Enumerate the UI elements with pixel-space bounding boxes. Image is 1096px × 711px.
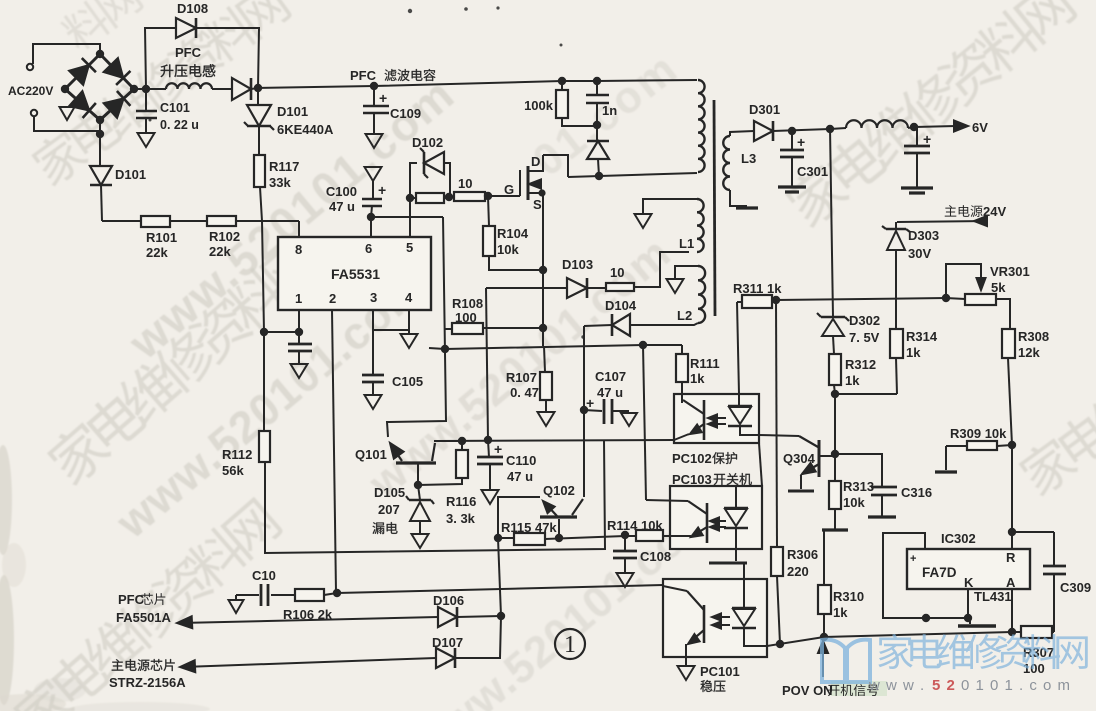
node AC input terminals — [27, 64, 33, 70]
svg-text:S: S — [533, 197, 542, 212]
svg-text:+: + — [378, 182, 386, 198]
scan shading blobs — [0, 445, 210, 711]
wire bottom rail — [767, 632, 1021, 646]
resistor R106 — [295, 589, 324, 601]
wire L3 gnd — [730, 190, 747, 206]
svg-text:10: 10 — [610, 265, 624, 280]
svg-text:R111: R111 — [690, 356, 720, 371]
wire lineB — [337, 585, 663, 593]
resistor R314 — [890, 329, 903, 358]
svg-text:56k: 56k — [222, 463, 244, 478]
svg-text:1k: 1k — [845, 373, 860, 388]
svg-text:PFC: PFC — [175, 45, 202, 60]
svg-text:1k: 1k — [906, 345, 921, 360]
wire C107 vert — [583, 326, 585, 497]
svg-text:Q102: Q102 — [543, 483, 575, 498]
svg-text:100: 100 — [455, 310, 477, 325]
svg-text:R117: R117 — [269, 159, 299, 174]
svg-text:C10: C10 — [252, 568, 276, 583]
svg-text:1k: 1k — [690, 371, 705, 386]
capacitor C107 — [580, 406, 588, 414]
svg-text:5k: 5k — [991, 280, 1006, 295]
svg-text:1n: 1n — [602, 103, 617, 118]
svg-text:R106 2k: R106 2k — [283, 607, 333, 622]
wire drain line — [568, 173, 697, 177]
capacitor C6V — [916, 127, 918, 146]
capacitor C301 — [791, 131, 793, 150]
bridge rectifier — [65, 54, 100, 89]
svg-text:R107: R107 — [506, 370, 537, 385]
svg-text:A: A — [1006, 575, 1016, 590]
filter coil 6V — [846, 120, 908, 128]
diode D108 — [145, 28, 176, 89]
diode D102 — [410, 163, 417, 198]
scan specks — [149, 6, 585, 338]
wire PC103 collector — [643, 345, 646, 500]
resistor R310 — [823, 530, 825, 585]
wire — [371, 216, 443, 218]
svg-text:207: 207 — [378, 502, 400, 517]
transistor Q102 — [540, 515, 577, 518]
svg-text:D302: D302 — [849, 313, 880, 328]
zener D101 6KE440A — [257, 88, 259, 105]
svg-text:+: + — [797, 134, 805, 150]
resistor 10 secondary — [606, 283, 634, 291]
capacitor pin1 — [288, 343, 312, 346]
resistor 100k snubber — [558, 77, 566, 85]
IC FA5531 — [278, 237, 431, 310]
svg-text:w w w .: w w w . — [868, 677, 925, 694]
diode D301 — [754, 121, 773, 141]
svg-text:R108: R108 — [452, 296, 483, 311]
wire — [33, 44, 100, 64]
POV arrow — [818, 641, 828, 653]
wire R115 to D106 — [498, 538, 501, 616]
optocoupler PC103 — [670, 486, 762, 549]
svg-text:C316: C316 — [901, 485, 932, 500]
svg-text:D101: D101 — [115, 167, 146, 182]
svg-text:D103: D103 — [562, 257, 593, 272]
resistor R111 — [681, 345, 683, 354]
svg-text:R306: R306 — [787, 547, 818, 562]
svg-text:R310: R310 — [833, 589, 864, 604]
wire D103 tap — [486, 288, 488, 440]
svg-text:10: 10 — [458, 176, 472, 191]
svg-text:K: K — [964, 575, 974, 590]
svg-text:10k: 10k — [497, 242, 519, 257]
resistor R107 — [544, 346, 545, 372]
svg-text:D303: D303 — [908, 228, 939, 243]
potentiometer VR301 — [946, 264, 981, 298]
svg-text:+: + — [910, 553, 916, 565]
resistor R117 — [258, 126, 260, 155]
svg-text:12k: 12k — [1018, 345, 1040, 360]
svg-text:0. 47: 0. 47 — [510, 385, 539, 400]
svg-text:R116: R116 — [446, 494, 476, 509]
wire lineA — [265, 440, 605, 553]
svg-text:C301: C301 — [797, 164, 828, 179]
svg-text:D102: D102 — [412, 135, 443, 150]
snubber diode — [596, 126, 598, 141]
resistor R312 — [833, 336, 834, 354]
svg-text:1k: 1k — [833, 605, 848, 620]
svg-text:C108: C108 — [640, 549, 671, 564]
svg-text:47 u: 47 u — [507, 469, 533, 484]
svg-text:5: 5 — [406, 240, 413, 255]
diode D104 — [584, 325, 612, 326]
svg-text:R308: R308 — [1018, 329, 1049, 344]
wire main boost rail — [258, 80, 697, 88]
svg-text:R312: R312 — [845, 357, 876, 372]
svg-text:G: G — [504, 182, 514, 197]
capacitor C110 — [484, 436, 492, 444]
capacitor C316 — [835, 454, 882, 487]
svg-text:PFC: PFC — [350, 68, 377, 83]
svg-text:FA7D: FA7D — [922, 565, 957, 580]
svg-text:22k: 22k — [209, 244, 231, 259]
svg-text:C109: C109 — [390, 106, 421, 121]
label main chip — [112, 659, 175, 671]
svg-text:D105: D105 — [374, 485, 405, 500]
capacitor C101 — [142, 85, 150, 93]
svg-text:R112: R112 — [222, 447, 252, 462]
svg-text:100k: 100k — [524, 98, 554, 113]
svg-text:PC102: PC102 — [672, 451, 712, 466]
wire source line — [542, 193, 544, 270]
svg-text:L3: L3 — [741, 151, 756, 166]
resistor R116 — [458, 437, 466, 445]
transformer core — [714, 100, 715, 316]
svg-text:D301: D301 — [749, 102, 780, 117]
svg-text:FA5531: FA5531 — [331, 266, 380, 282]
logo book icon — [822, 640, 870, 682]
transformer primary — [698, 80, 705, 172]
wire pin1 — [298, 310, 300, 344]
svg-text:R104: R104 — [497, 226, 529, 241]
transistor Q101 — [396, 461, 436, 464]
wire emitter line — [435, 440, 674, 441]
svg-text:C105: C105 — [392, 374, 423, 389]
capacitor C108 — [624, 536, 626, 551]
resistor R104 — [488, 196, 489, 226]
boost diode — [232, 78, 251, 100]
svg-text:R309 10k: R309 10k — [950, 426, 1007, 441]
transistor Q304 — [818, 440, 821, 477]
wire reg rail — [776, 298, 946, 300]
svg-text:47 u: 47 u — [597, 385, 623, 400]
wire pin3 pin4 ground — [372, 310, 374, 375]
svg-text:FA5501A: FA5501A — [116, 610, 172, 625]
svg-text:0 1 0 1 . c o m: 0 1 0 1 . c o m — [961, 677, 1071, 694]
svg-text:D: D — [531, 154, 540, 169]
svg-text:D108: D108 — [177, 1, 208, 16]
wire pin2 long — [332, 310, 336, 592]
resistor R306 — [776, 300, 777, 547]
schematic number 1 — [555, 629, 585, 659]
svg-text:2: 2 — [329, 291, 336, 306]
zener D303 — [895, 222, 897, 229]
svg-text:R102: R102 — [209, 229, 240, 244]
svg-text:R101: R101 — [146, 230, 177, 245]
wire mid rail — [429, 345, 682, 349]
svg-text:PC101: PC101 — [700, 664, 740, 679]
svg-text:10k: 10k — [843, 495, 865, 510]
capacitor C109 — [370, 82, 378, 90]
svg-text:+: + — [586, 395, 594, 411]
svg-text:R314: R314 — [906, 329, 938, 344]
gate resistors 10 — [406, 194, 414, 202]
svg-text:Q304: Q304 — [783, 451, 816, 466]
wire R311 to PC102 — [737, 302, 739, 394]
svg-text:0. 22 u: 0. 22 u — [160, 118, 199, 132]
svg-text:AC220V: AC220V — [8, 84, 53, 98]
diode D101 bridge lower — [96, 130, 104, 138]
svg-text:PFC: PFC — [118, 592, 145, 607]
svg-text:4: 4 — [405, 290, 413, 305]
svg-text:D107: D107 — [432, 635, 463, 650]
resistor R101 R102 rail — [102, 220, 299, 222]
svg-text:R: R — [1006, 550, 1016, 565]
svg-text:C309: C309 — [1060, 580, 1091, 595]
resistor R112 — [259, 431, 270, 462]
zener D105 — [418, 485, 420, 500]
svg-text:6KE440A: 6KE440A — [277, 122, 334, 137]
svg-text:D106: D106 — [433, 593, 464, 608]
wire vcc vertical — [387, 217, 446, 437]
svg-text:+: + — [379, 90, 387, 106]
wire pin5 — [409, 198, 411, 237]
svg-text:7. 5V: 7. 5V — [849, 330, 880, 345]
svg-text:L2: L2 — [677, 308, 692, 323]
svg-text:30V: 30V — [908, 246, 931, 261]
inductor L2 — [698, 266, 705, 323]
svg-text:TL431: TL431 — [974, 589, 1012, 604]
resistor R108 — [444, 328, 452, 330]
svg-text:C107: C107 — [595, 369, 626, 384]
mosfet Q — [488, 195, 520, 197]
svg-text:Q101: Q101 — [355, 447, 387, 462]
wire IC302 left — [883, 533, 970, 618]
resistor R307 — [1021, 626, 1052, 638]
svg-text:L1: L1 — [679, 236, 694, 251]
diode D106 — [177, 616, 192, 628]
resistor R313 — [834, 454, 836, 481]
svg-text:R313: R313 — [843, 479, 874, 494]
svg-text:VR301: VR301 — [990, 264, 1030, 279]
wire 24V — [897, 221, 988, 222]
svg-text:C101: C101 — [160, 101, 190, 115]
svg-text:STRZ-2156A: STRZ-2156A — [109, 675, 186, 690]
svg-text:PC103: PC103 — [672, 472, 712, 487]
IC302 TL431 — [1012, 531, 1054, 533]
svg-text:22k: 22k — [146, 245, 168, 260]
diode D107 — [180, 660, 195, 672]
svg-text:1: 1 — [295, 291, 302, 306]
svg-text:33k: 33k — [269, 175, 291, 190]
svg-text:6V: 6V — [972, 120, 988, 135]
svg-text:R311 1k: R311 1k — [733, 281, 782, 296]
svg-text:1: 1 — [564, 632, 576, 658]
svg-text:IC302: IC302 — [941, 531, 976, 546]
svg-text:6: 6 — [365, 241, 372, 256]
svg-text:24V: 24V — [983, 204, 1006, 219]
capacitor C309 — [1053, 532, 1055, 566]
inductor L3 — [723, 136, 730, 190]
svg-text:C110: C110 — [506, 453, 536, 468]
optocoupler PC101 — [663, 579, 767, 657]
svg-text:D101: D101 — [277, 104, 308, 119]
resistor R308 — [1002, 329, 1015, 358]
wire A pin — [1011, 589, 1013, 632]
svg-text:5 2: 5 2 — [932, 677, 956, 694]
svg-text:POV ON: POV ON — [782, 683, 833, 698]
resistor R115 — [494, 534, 502, 542]
svg-text:+: + — [494, 441, 502, 457]
svg-text:3. 3k: 3. 3k — [446, 511, 476, 526]
ground marker bridge — [60, 107, 75, 120]
svg-text:8: 8 — [295, 242, 302, 257]
inductor L1 — [697, 199, 704, 252]
capacitor 1n — [593, 77, 601, 85]
diode D103 — [486, 287, 567, 289]
svg-text:220: 220 — [787, 564, 809, 579]
svg-text:3: 3 — [370, 290, 377, 305]
svg-text:C100: C100 — [326, 184, 357, 199]
svg-text:47 u: 47 u — [329, 199, 355, 214]
zener D302 — [830, 128, 833, 317]
logo text — [878, 634, 1087, 669]
capacitor C105 — [362, 374, 384, 377]
wire box corners — [759, 443, 762, 486]
optocoupler PC102 — [674, 394, 759, 443]
svg-text:D104: D104 — [605, 298, 637, 313]
